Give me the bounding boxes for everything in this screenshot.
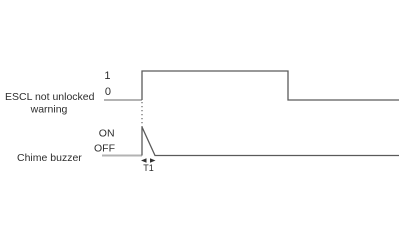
dimension arrow right (points right to slope end) (150, 158, 156, 162)
wire: Chime buzzer OFF segment (left, before pulse) (102, 155, 142, 157)
wire: Chime buzzer pulse (rise, decay slope) and OFF tail (142, 127, 399, 156)
wire: dotted vertical reference line at rising edge (141, 102, 143, 127)
svg-text:ON: ON (99, 128, 115, 140)
svg-text:ESCL not unlocked: ESCL not unlocked (5, 91, 95, 103)
svg-text:1: 1 (104, 70, 110, 82)
dimension arrow left (points left to rising edge) (141, 158, 147, 162)
svg-text:T1: T1 (143, 163, 154, 173)
wire: ESCL waveform low segment (left, before rising edge) (104, 99, 142, 101)
wire: ESCL waveform rising edge, high plateau, falling edge, low tail (142, 71, 399, 100)
svg-text:Chime buzzer: Chime buzzer (17, 152, 82, 164)
svg-text:0: 0 (105, 86, 111, 98)
svg-text:OFF: OFF (94, 143, 115, 155)
svg-text:warning: warning (30, 104, 68, 116)
